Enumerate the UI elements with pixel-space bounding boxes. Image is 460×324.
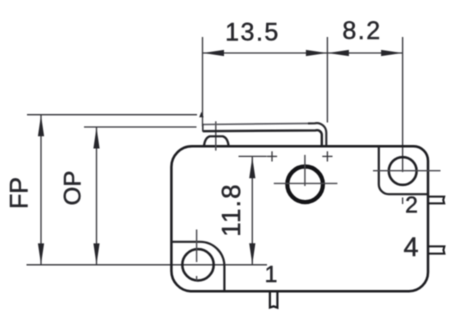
svg-text:4: 4 — [403, 232, 418, 262]
svg-text:OP: OP — [60, 171, 87, 206]
svg-text:2: 2 — [405, 192, 418, 218]
svg-text:11.8: 11.8 — [216, 183, 246, 236]
svg-text:FP: FP — [6, 177, 34, 209]
svg-text:8.2: 8.2 — [342, 17, 381, 45]
svg-text:1: 1 — [265, 261, 278, 287]
svg-text:13.5: 13.5 — [225, 19, 280, 47]
